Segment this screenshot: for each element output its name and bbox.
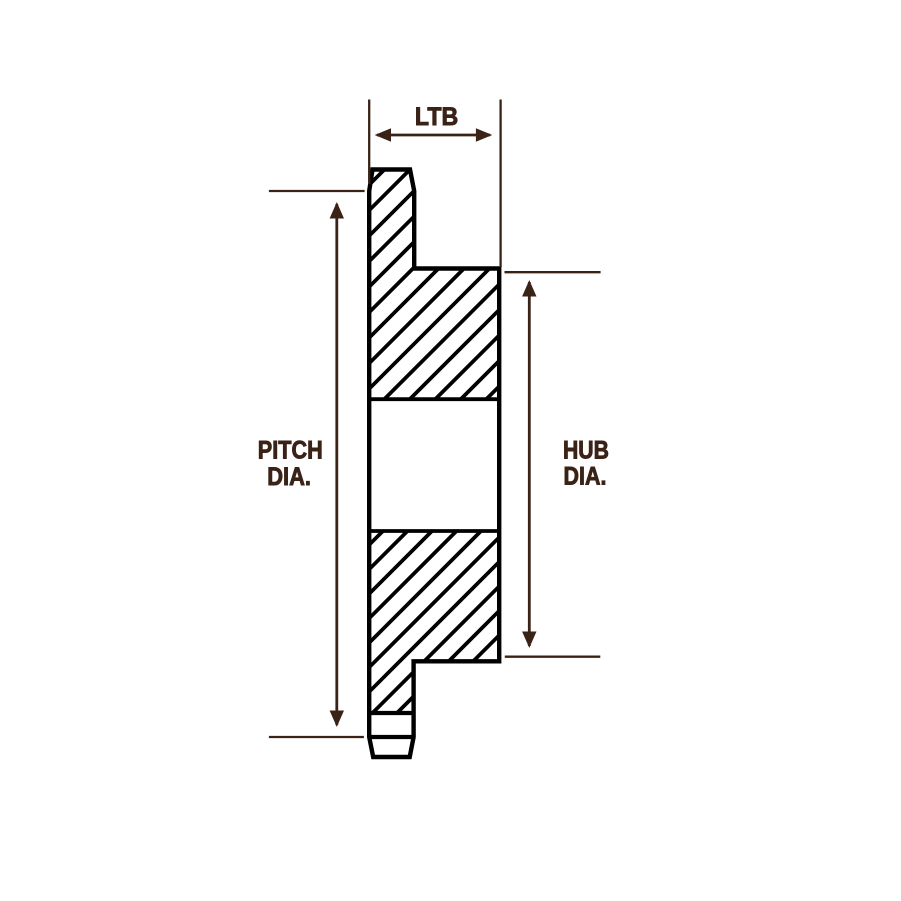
hatch boundary line bottom tooth — [368, 711, 416, 715]
svg-text:DIA.: DIA. — [564, 462, 607, 490]
HUB DIA. label — [563, 437, 609, 491]
bore top line — [368, 397, 502, 401]
svg-text:PITCH: PITCH — [258, 437, 323, 465]
PITCH DIA. label — [258, 437, 323, 491]
hatch lines upper section — [113, 100, 811, 441]
pitch dia top extension line — [269, 190, 365, 192]
sprocket section outline — [369, 170, 499, 758]
svg-text:HUB: HUB — [563, 437, 609, 465]
pitch dia dimension arrow — [330, 202, 344, 727]
LTB left extension line — [368, 100, 370, 185]
svg-text:DIA.: DIA. — [267, 463, 311, 491]
hub dia bottom extension line — [505, 656, 601, 658]
pitch dia bottom extension line — [269, 736, 364, 738]
bore bottom line — [368, 529, 502, 533]
hatch lines lower section — [93, 480, 728, 821]
hub dia dimension arrow — [522, 280, 536, 648]
hub dia top extension line — [505, 271, 601, 273]
LTB right extension line — [499, 100, 501, 268]
bottom pitch line across tooth — [368, 735, 416, 739]
LTB dimension arrow — [375, 128, 493, 141]
svg-text:LTB: LTB — [415, 103, 458, 131]
